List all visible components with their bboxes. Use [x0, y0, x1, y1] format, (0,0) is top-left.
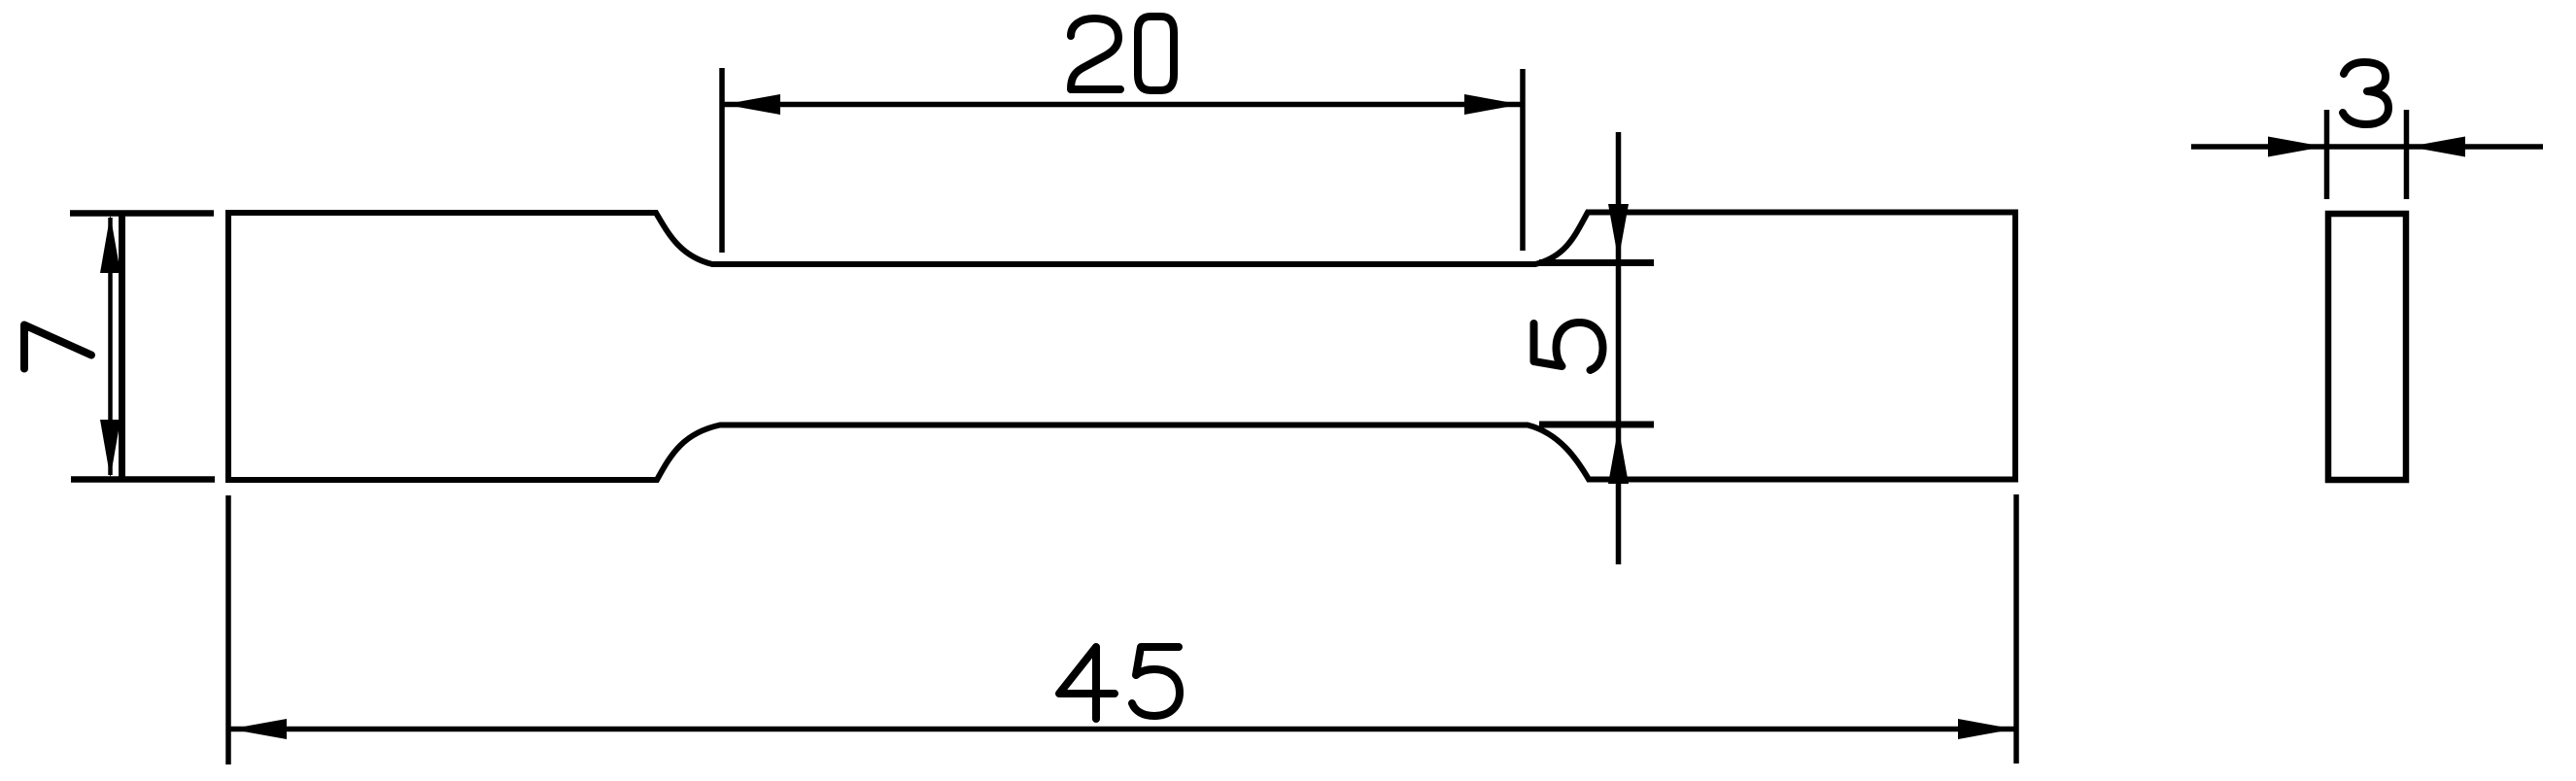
- dim 3 label "3": [2343, 62, 2388, 124]
- dim 7 top extension line: [70, 210, 214, 217]
- dim 5 bottom extension tick: [1539, 422, 1654, 428]
- dim 20 arrowhead right: [1464, 94, 1521, 115]
- dim 20 right extension line: [1520, 69, 1526, 251]
- dim 7 bottom extension line: [71, 476, 215, 483]
- dim 5 top extension tick: [1539, 259, 1654, 266]
- dim 20 label digit 0: [1138, 17, 1174, 90]
- dim 45 label digit 4: [1059, 647, 1115, 719]
- dim 5 arrowhead up (outside below): [1608, 427, 1629, 484]
- dim 7 arrowhead up: [100, 215, 120, 273]
- dim 7 arrow shaft: [108, 218, 113, 475]
- dim 20 dimension line: [724, 102, 1521, 108]
- side view rectangle: [2328, 214, 2406, 480]
- dim 45 left extension line: [225, 495, 231, 764]
- dim 7 dimension line: [119, 214, 125, 480]
- dim 7 arrowhead down: [100, 420, 120, 478]
- dim 20 label digit 2: [1071, 18, 1120, 89]
- dim 45 arrowhead right: [1958, 719, 2014, 739]
- dim 3 arrowhead pointing right: [2268, 137, 2324, 157]
- dim 7 label "7" (rotated): [24, 325, 91, 369]
- dim 20 arrowhead left: [724, 94, 780, 115]
- dim 5 label "5" (rotated): [1534, 323, 1603, 370]
- dim 3 left extension line: [2324, 110, 2330, 199]
- dim 3 dimension line: [2191, 144, 2543, 150]
- dim 45 arrowhead left: [230, 719, 287, 739]
- dim 45 right extension line: [2013, 494, 2019, 764]
- dim 5 arrowhead down (outside above): [1608, 204, 1629, 260]
- specimen outline (front view dog-bone): [228, 213, 2015, 481]
- dim 3 arrowhead pointing left: [2409, 137, 2465, 157]
- dim 3 right extension line: [2404, 110, 2410, 199]
- dim 45 label digit 5: [1132, 647, 1180, 716]
- dim 45 dimension line: [230, 727, 2014, 732]
- dim 20 left extension line: [719, 68, 725, 253]
- dim 5 dimension line: [1616, 132, 1622, 564]
